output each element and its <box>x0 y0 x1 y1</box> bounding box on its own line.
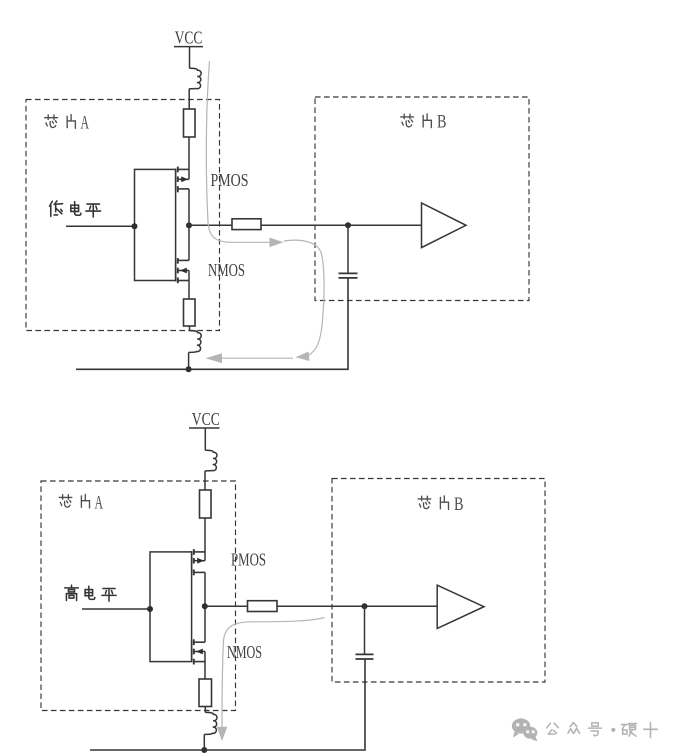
input wire <box>82 608 150 610</box>
wire Q2 source down to R2 <box>188 271 190 300</box>
wire R2 to L2 <box>189 326 191 331</box>
inductor L4 <box>204 712 217 734</box>
return current arrow path 3 (gray horizontal) <box>206 353 294 363</box>
capacitor C2 <box>356 654 374 659</box>
resistor R6 (series) <box>248 601 278 612</box>
resistor R4 <box>200 490 212 518</box>
wire L3 to R4 <box>204 471 206 490</box>
wire Q4 source to R5 <box>204 652 206 680</box>
transistor Q1 PMOS <box>176 167 189 193</box>
VCC power symbol <box>175 27 203 47</box>
wire L1 to R1 <box>188 89 190 109</box>
ground junction dot <box>201 747 207 753</box>
wire R6 to receiver <box>277 605 437 607</box>
wire node to C1 <box>347 225 349 273</box>
wire output node to Q2 drain <box>188 225 190 260</box>
VCC underline <box>174 46 203 48</box>
transistor Q4 NMOS <box>192 639 205 664</box>
wire Q1 source to output node <box>188 189 190 226</box>
output node dot <box>186 222 192 228</box>
node B dot <box>362 603 368 609</box>
chip A dashed box <box>41 481 236 711</box>
svg-text:PMOS: PMOS <box>231 549 266 569</box>
svg-text:A: A <box>95 493 104 514</box>
svg-text:NMOS: NMOS <box>227 642 262 662</box>
芯片B label <box>418 494 463 515</box>
transistor Q3 PMOS <box>192 549 205 575</box>
discharge current arrow (gray) <box>217 618 325 742</box>
ground rail <box>90 660 365 751</box>
inductor L1 <box>189 68 201 88</box>
inductor L2 <box>189 331 202 353</box>
op-amp U4 receiver buffer <box>437 585 484 628</box>
wire node to C2 <box>364 606 366 654</box>
芯片B label <box>401 112 447 133</box>
resistor R1 <box>184 109 196 137</box>
芯片A label <box>59 493 103 514</box>
VCC underline <box>189 427 220 429</box>
wire VCC to L3 <box>204 428 206 450</box>
node A dot <box>345 222 351 228</box>
chip A dashed box <box>26 100 220 331</box>
capacitor C1 <box>339 273 358 278</box>
wire Q3 source to output node <box>204 572 206 606</box>
return current arrow path 2 (gray) <box>284 240 324 361</box>
ground junction dot <box>186 366 192 372</box>
wire R3 to receiver <box>261 224 422 226</box>
resistor R5 <box>199 679 212 707</box>
logo eyes <box>516 723 534 733</box>
output wire to R6 <box>205 605 248 607</box>
wire R4 to Q3 <box>204 518 206 561</box>
芯片A label <box>45 112 89 133</box>
inductor L3 <box>205 450 217 471</box>
chip B dashed box <box>332 479 545 683</box>
chip B dashed box <box>315 97 529 301</box>
transistor Q2 NMOS <box>176 258 189 283</box>
input node dot <box>132 223 138 229</box>
resistor R3 (series) <box>232 219 261 230</box>
wire R5 to L4 <box>204 707 206 713</box>
watermark text 公众号·硬十 <box>547 723 658 738</box>
wire R1 to Q1 <box>188 137 190 179</box>
driver box U1 <box>135 169 176 280</box>
input wire <box>66 225 135 227</box>
svg-text:A: A <box>81 112 90 133</box>
return current arrow path 1 (gray) <box>206 61 283 247</box>
svg-text:B: B <box>437 112 447 133</box>
低电平 label <box>50 201 101 217</box>
wire output node to Q4 drain <box>204 606 206 642</box>
wire VCC to L1 <box>189 47 191 69</box>
wire L2 to ground rail <box>188 352 190 369</box>
output node dot <box>202 603 208 609</box>
input node dot <box>147 606 153 612</box>
svg-text:PMOS: PMOS <box>211 170 249 190</box>
wire L4 to ground rail <box>203 734 205 750</box>
svg-text:NMOS: NMOS <box>208 260 245 280</box>
output wire to R3 <box>189 224 232 226</box>
高电平 label <box>65 585 116 601</box>
svg-text:VCC: VCC <box>175 27 203 47</box>
op-amp U2 receiver buffer <box>422 203 467 248</box>
wechat logo bubbles <box>512 718 538 741</box>
driver box U3 <box>150 552 192 662</box>
resistor R2 <box>184 299 196 326</box>
svg-text:B: B <box>454 494 464 515</box>
svg-text:VCC: VCC <box>192 409 220 429</box>
ground rail <box>76 278 348 369</box>
VCC power symbol <box>192 409 220 429</box>
